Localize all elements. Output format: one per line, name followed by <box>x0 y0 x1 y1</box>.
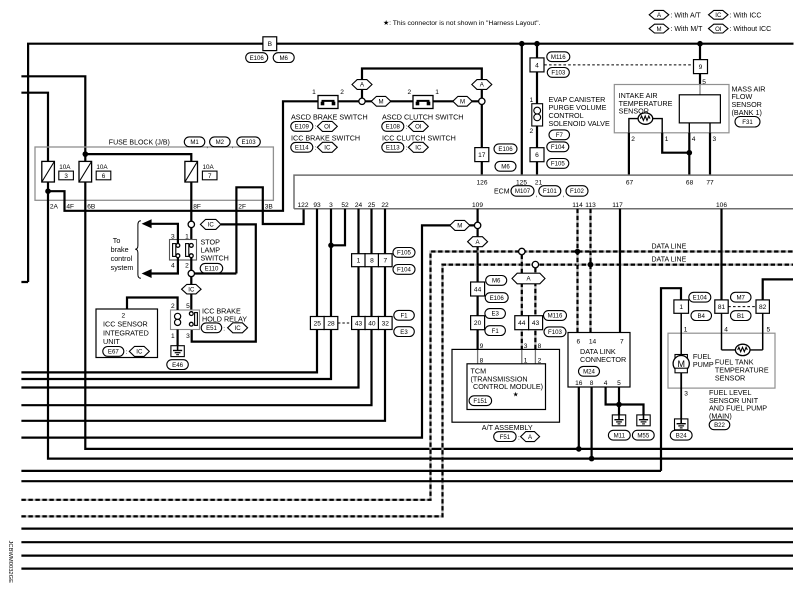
svg-text:F102: F102 <box>570 188 585 195</box>
wire: brake switch pin 2 to junction <box>338 100 359 102</box>
junction dot on bus for EVAP branch <box>534 41 540 47</box>
svg-text:F105: F105 <box>551 161 566 168</box>
wire: ECM pin 52 jumper to pin 3 <box>331 209 345 246</box>
svg-text:B1: B1 <box>737 313 745 320</box>
wire: fuse 6 output down (pin 6B) long run to bottom bus <box>85 182 793 449</box>
svg-text:3: 3 <box>713 136 717 143</box>
svg-text:6: 6 <box>102 173 106 180</box>
ICC brake hold relay E51 box <box>171 310 200 330</box>
svg-text:M2: M2 <box>216 139 225 146</box>
svg-text:43: 43 <box>355 320 363 327</box>
svg-text:E3: E3 <box>491 311 499 318</box>
svg-text:ICC SENSOR: ICC SENSOR <box>103 320 148 329</box>
svg-text:E106: E106 <box>498 146 513 153</box>
svg-text:B24: B24 <box>676 432 687 439</box>
svg-text:81: 81 <box>718 304 726 311</box>
EVAP purge volume control solenoid valve coil <box>532 104 543 126</box>
wire: ECM pin 114 dashed to data line 1 and DLC pin 6 <box>576 209 578 333</box>
svg-text:43: 43 <box>532 320 540 327</box>
wire: bottom line y527 <box>21 527 793 529</box>
svg-text:22: 22 <box>381 202 389 209</box>
node: 8F junction circle above stop lamp switch <box>188 221 194 227</box>
wire: data line 2 tap down through connector 43 to TCM pin 2 (dashed) <box>534 268 536 350</box>
connector box 20 with E3 F1 <box>471 316 485 330</box>
svg-text:2F: 2F <box>238 203 246 210</box>
svg-text:CONTROL MODULE): CONTROL MODULE) <box>473 382 543 391</box>
connector box 6 with F104 F105 <box>530 148 544 162</box>
wire: ECM pin 22 down through connectors 7/32 to bus <box>21 209 385 421</box>
svg-text:5: 5 <box>617 380 621 387</box>
wire: ECM pin 24 down through connectors 1/43 to bus <box>21 209 358 388</box>
wire: bottom line y470 to fuel pump riser <box>21 470 661 472</box>
ASCD clutch switch box <box>413 96 433 109</box>
svg-text:IC: IC <box>235 325 242 332</box>
wire: junction to M hexagon to clutch switch <box>365 100 413 102</box>
wire: ECM pin 113 dashed to data line 2 and DLC pin 14 <box>589 209 591 333</box>
svg-text:8: 8 <box>370 258 374 265</box>
svg-text:2: 2 <box>530 128 534 135</box>
wire: solenoid pin 2 to connector 6 <box>536 126 538 148</box>
svg-text:E103: E103 <box>241 139 256 146</box>
svg-text:,: , <box>232 143 234 150</box>
svg-text:B22: B22 <box>714 422 725 429</box>
connector box 17 with E106 M6 <box>475 148 489 162</box>
svg-text:32: 32 <box>382 320 390 327</box>
svg-text:OI: OI <box>324 124 331 131</box>
intake air temperature sensor element <box>638 113 653 124</box>
svg-text:4: 4 <box>171 263 175 270</box>
svg-text:F1: F1 <box>400 313 408 320</box>
wire: bus down to connector 4 <box>536 44 538 58</box>
svg-text:,: , <box>206 143 208 150</box>
svg-text:M24: M24 <box>583 369 595 376</box>
wire: fuse 3 output down (pin 2A) long run to bottom bus <box>48 182 793 459</box>
ground B24 <box>675 419 688 430</box>
svg-text:117: 117 <box>612 202 623 209</box>
wire: stop lamp switch pin 2 down to lower node <box>190 258 192 271</box>
svg-text:2: 2 <box>171 303 175 310</box>
connector row 25-28 dashed 43-40-32 with F1 E3 <box>310 317 324 330</box>
wire: into TCM inner pin 8 <box>477 349 479 363</box>
wire: bus to ECM pin 125 <box>521 44 523 175</box>
svg-text:M116: M116 <box>551 54 566 61</box>
svg-text:126: 126 <box>476 179 487 186</box>
svg-text:OI: OI <box>715 26 722 33</box>
connector ovals M116 F103 <box>544 311 567 321</box>
svg-text:6B: 6B <box>87 203 96 210</box>
wire: bus down to connector 9 <box>699 44 701 60</box>
stop lamp switch E110 box <box>170 240 197 261</box>
svg-text::: : <box>315 124 317 131</box>
svg-text:82: 82 <box>759 304 767 311</box>
wire: fuse 7 output down (pin 8F) to stop lamp switch node <box>190 182 192 221</box>
svg-text:E3: E3 <box>400 329 408 336</box>
svg-text:F7: F7 <box>556 132 564 139</box>
svg-text:113: 113 <box>585 202 596 209</box>
svg-text:122: 122 <box>297 202 308 209</box>
qualifier hexagon M (left) <box>371 96 391 106</box>
svg-text:1: 1 <box>357 258 361 265</box>
wire: left feed stub to fuse 3 (row y93) <box>21 93 48 162</box>
junction dot on bus for ECM pin 125 branch <box>519 41 525 47</box>
data link connector M24 box <box>568 333 630 388</box>
svg-text:F103: F103 <box>551 70 566 77</box>
DATA LINE 2 dashed wire <box>21 265 793 517</box>
svg-text:brake: brake <box>111 245 129 254</box>
qualifier hexagon M (right) <box>453 96 472 106</box>
svg-text:93: 93 <box>313 202 321 209</box>
svg-text:★: This connector is not shown: ★: This connector is not shown in "Harne… <box>383 19 540 27</box>
svg-text:(BANK 1): (BANK 1) <box>732 108 762 117</box>
svg-text:44: 44 <box>474 286 482 293</box>
svg-text:M: M <box>656 26 661 33</box>
wire: DLC pins 4+5 to grounds M11 M55 <box>606 387 644 415</box>
svg-text:ICC BRAKE SWITCH: ICC BRAKE SWITCH <box>291 133 360 142</box>
fuse block (J/B) outline <box>35 147 273 200</box>
wire: connector 1 into fuel pump <box>680 313 682 354</box>
wire: pin5 inside sensor to MAF box <box>699 85 701 95</box>
wire: clutch switch pin 1 to right junction <box>433 100 479 102</box>
svg-text::: : <box>518 434 520 441</box>
qualifier hexagon A (right) <box>472 80 492 90</box>
junction dot below fuse 3 <box>45 188 51 194</box>
svg-text:FUSE BLOCK (J/B): FUSE BLOCK (J/B) <box>109 139 170 146</box>
wire: ECM pin 93 down through connector 25 to bus <box>21 209 317 373</box>
qualifier hexagon A on A/T branch <box>468 237 488 247</box>
svg-text:3: 3 <box>64 173 68 180</box>
connector oval F7 <box>549 130 570 140</box>
wire: connector 81 into fuel unit pin 4 <box>721 313 723 350</box>
svg-text:SWITCH: SWITCH <box>201 254 229 263</box>
wire: DLC pin 16 to ground bus (6B line) <box>578 387 580 449</box>
svg-text:F105: F105 <box>397 250 412 257</box>
wire: connector 82 into fuel unit pin 5 <box>762 313 764 350</box>
svg-text:E46: E46 <box>172 362 183 369</box>
connector box 9 <box>694 60 708 74</box>
svg-text:9: 9 <box>699 64 703 71</box>
legend hexagon IC = With ICC <box>709 10 729 19</box>
wire: temp sensor left lead to pin 2 <box>629 119 638 133</box>
svg-text:2: 2 <box>340 89 344 96</box>
svg-text::: : <box>126 349 128 356</box>
svg-text:: With M/T: : With M/T <box>671 26 704 33</box>
svg-text:,: , <box>562 192 564 199</box>
A/T assembly outer box <box>452 349 560 422</box>
svg-text:IC: IC <box>715 12 722 19</box>
svg-text:M: M <box>378 99 383 106</box>
svg-text:114: 114 <box>572 202 583 209</box>
svg-text:★: ★ <box>513 391 519 398</box>
wire: bottom line y481 full width <box>21 480 793 482</box>
svg-text:M11: M11 <box>614 432 626 439</box>
svg-text:E51: E51 <box>206 325 217 332</box>
wire: connector 4 to EVAP solenoid pin 1 <box>536 72 538 104</box>
junction dot pins 3+52 <box>328 243 334 249</box>
svg-text:8F: 8F <box>193 203 201 210</box>
svg-text:40: 40 <box>368 320 376 327</box>
svg-text:3: 3 <box>684 390 688 397</box>
svg-text:M6: M6 <box>501 164 510 171</box>
wire: connector 82 up and off page right <box>763 279 793 300</box>
svg-text:77: 77 <box>706 179 714 186</box>
svg-text:IC: IC <box>324 145 331 152</box>
wires into TCM inner pins 1 2 <box>521 349 523 363</box>
svg-text:2: 2 <box>408 89 412 96</box>
svg-text:1: 1 <box>530 97 534 104</box>
junction dot on bus for MAF branch <box>697 41 703 47</box>
wire: fuse block jumper 2F-3B <box>236 187 303 273</box>
svg-text:M: M <box>457 223 462 230</box>
wire: relay coil pin 2 to ICC sensor integrated unit pin 2 <box>127 298 178 311</box>
wire: pin 3 to ECM pin 77 <box>709 133 711 175</box>
svg-text:: With A/T: : With A/T <box>671 12 702 19</box>
svg-text:44: 44 <box>518 320 526 327</box>
svg-text:M55: M55 <box>637 432 649 439</box>
wire: left feed stub to fuse 6 (row y76) <box>21 76 85 161</box>
wire: MAF pin 3 lead <box>709 123 711 133</box>
svg-text:4: 4 <box>535 62 539 69</box>
svg-text:F103: F103 <box>548 329 563 336</box>
fuel pump motor M <box>675 355 687 360</box>
svg-text:F104: F104 <box>397 267 412 274</box>
svg-text:68: 68 <box>686 179 694 186</box>
legend hexagon OI = Without ICC <box>709 24 729 33</box>
svg-text:4: 4 <box>604 380 608 387</box>
wire: stop lamp switch pin 1 from circle <box>190 228 192 243</box>
svg-text:CONNECTOR: CONNECTOR <box>580 355 626 364</box>
connector box 43 (TCM) <box>529 316 543 330</box>
svg-text:10A: 10A <box>203 164 215 171</box>
stop lamp switch right contact (pins 1-2) <box>186 244 189 257</box>
connector box 1 with E104 B4 <box>674 300 689 313</box>
svg-text:,: , <box>536 192 538 199</box>
wire: branch to fuse 7 top <box>85 154 191 161</box>
ground M11 <box>612 415 625 426</box>
wire: temp sensor right lead to pin 1 <box>653 119 663 133</box>
svg-text:E67: E67 <box>108 349 119 356</box>
svg-text:4: 4 <box>692 136 696 143</box>
svg-text:2: 2 <box>121 312 125 319</box>
svg-text:106: 106 <box>716 202 727 209</box>
arrow to brake control system (top) <box>142 219 152 228</box>
svg-text:ASCD CLUTCH SWITCH: ASCD CLUTCH SWITCH <box>382 113 463 122</box>
connector oval F151 <box>469 396 492 406</box>
svg-text:3B: 3B <box>265 203 274 210</box>
wire: fuel pump pin 3 to ground B24 <box>680 373 682 419</box>
svg-text:DATA LINE: DATA LINE <box>652 243 687 250</box>
svg-text:4: 4 <box>724 326 728 333</box>
connector box 44 with M6 E106 <box>471 282 485 296</box>
svg-text::: : <box>315 145 317 152</box>
intake air temperature / mass air flow sensor outer box <box>614 85 729 133</box>
svg-text:E106: E106 <box>250 55 265 62</box>
qualifier hexagon IC on stop-lamp bypass <box>200 219 221 229</box>
svg-text:M107: M107 <box>515 188 531 195</box>
svg-text:E114: E114 <box>295 145 309 152</box>
svg-text:2A: 2A <box>50 203 59 210</box>
svg-text:7: 7 <box>208 173 212 180</box>
svg-text:3: 3 <box>186 333 190 340</box>
svg-text:14: 14 <box>589 338 597 345</box>
wire: right junction down to connector 17 and ECM pin 126 <box>481 105 483 176</box>
svg-text:1: 1 <box>679 304 683 311</box>
wire: relay coil pin 1 to ground E46 <box>177 330 179 346</box>
qualifier hexagon A (left) <box>352 80 372 90</box>
DATA LINE 1 dashed wire <box>21 252 793 500</box>
svg-text:IC: IC <box>208 222 215 229</box>
legend hexagon M = With M/T <box>649 24 669 33</box>
svg-text:17: 17 <box>478 152 486 159</box>
wire: MAF pin 4 lead <box>688 123 690 133</box>
svg-text:28: 28 <box>327 320 335 327</box>
junction dot pins 4+5 <box>616 402 622 408</box>
connector box B on bus with E106 M6 <box>263 37 277 51</box>
svg-text:10A: 10A <box>96 164 108 171</box>
svg-text:67: 67 <box>626 179 634 186</box>
ASCD brake switch box <box>318 96 338 109</box>
connector oval E110 <box>200 263 223 273</box>
svg-text:ECM: ECM <box>494 188 510 195</box>
connector oval M24 <box>579 366 600 376</box>
relay contact <box>189 312 193 316</box>
fuse F-6 10A <box>79 161 92 182</box>
svg-text:4F: 4F <box>66 203 74 210</box>
svg-text:INTEGRATED: INTEGRATED <box>103 328 149 337</box>
svg-text:E109: E109 <box>295 124 310 131</box>
svg-text:B4: B4 <box>697 313 705 320</box>
svg-text:IC: IC <box>415 145 422 152</box>
wire: bottom line y555 <box>21 554 793 556</box>
svg-text:5: 5 <box>767 326 771 333</box>
node: junction circle after clutch switch <box>479 98 485 104</box>
connector box 82 <box>756 300 769 313</box>
wire: main power bus from left corner down to y282 stub <box>21 44 793 282</box>
connector oval E51 with IC qualifier <box>201 323 222 333</box>
svg-text:1: 1 <box>684 326 688 333</box>
svg-text:M7: M7 <box>736 294 745 301</box>
svg-text:: Without ICC: : Without ICC <box>730 26 772 33</box>
wire: connector 6 to ECM pin 21 <box>536 162 538 175</box>
svg-text:1: 1 <box>435 89 439 96</box>
svg-text:1: 1 <box>665 136 669 143</box>
svg-text:M1: M1 <box>190 139 199 146</box>
svg-text:125: 125 <box>516 179 527 186</box>
svg-text:25: 25 <box>368 202 376 209</box>
wire: ECM pin 3 down through connector 28 to bus <box>21 209 331 379</box>
svg-text:M6: M6 <box>492 278 501 285</box>
svg-text:To: To <box>113 236 121 245</box>
wire: connector 9 to mass air flow sensor pin 5 <box>699 74 701 85</box>
wire: A/T bypass over switches <box>362 69 482 99</box>
svg-text:F151: F151 <box>473 398 488 405</box>
svg-text:E108: E108 <box>386 124 401 131</box>
svg-text:16: 16 <box>575 380 583 387</box>
svg-text:A/T ASSEMBLY: A/T ASSEMBLY <box>482 423 533 432</box>
svg-text:109: 109 <box>472 202 483 209</box>
svg-text:F31: F31 <box>742 119 753 126</box>
node: junction circle below stop lamp switch <box>188 270 194 276</box>
ECM box <box>294 175 793 209</box>
qualifier hexagon M on M/T branch <box>450 220 470 230</box>
svg-text:M: M <box>677 359 685 369</box>
svg-text::: : <box>406 145 408 152</box>
svg-text:7: 7 <box>383 258 387 265</box>
svg-text:IC: IC <box>136 349 143 356</box>
svg-text:system: system <box>111 263 134 272</box>
wire: ECM pin 106 to connector 81 <box>720 209 722 300</box>
fuel level sensor unit box <box>668 333 775 388</box>
connector oval B22 <box>709 420 730 430</box>
legend hexagon A = With A/T <box>649 10 669 19</box>
node: circle junction data line 2 to TCM <box>532 261 538 267</box>
svg-text:24: 24 <box>355 202 363 209</box>
svg-text:E113: E113 <box>386 145 400 152</box>
wire: data line 1 tap down through connector 44 to TCM pin 1 (dashed) <box>521 255 523 350</box>
svg-text:52: 52 <box>341 202 349 209</box>
junction dot pins 1+4 <box>687 150 693 156</box>
dashed link connector 4 to connector 9 <box>544 64 693 66</box>
svg-text:2: 2 <box>185 263 189 270</box>
connector oval F51 with A qualifier <box>494 432 516 442</box>
svg-text:PUMP: PUMP <box>693 360 714 369</box>
svg-text:B: B <box>268 41 273 48</box>
svg-text:ASCD BRAKE SWITCH: ASCD BRAKE SWITCH <box>291 113 368 122</box>
wire: ECM pin 25 down through connectors 8/40 to bus <box>21 209 371 406</box>
svg-text:M: M <box>460 99 465 106</box>
connector box 81 with M7 B1 <box>715 300 728 313</box>
svg-text:ICC CLUTCH SWITCH: ICC CLUTCH SWITCH <box>382 133 456 142</box>
svg-text::: : <box>406 124 408 131</box>
connector box 4 with M116 F103 <box>530 58 544 72</box>
svg-text:1: 1 <box>312 89 316 96</box>
junction dot pin 113 on data line 2 <box>588 262 594 268</box>
wire: pin 3 to brake control system arrow <box>151 224 178 243</box>
junction dot pin 114 on data line 1 <box>575 249 581 255</box>
wire: ECM pin 109 down to junction <box>477 209 479 223</box>
svg-text:25: 25 <box>314 320 322 327</box>
svg-text:F51: F51 <box>500 434 511 441</box>
svg-text:M6: M6 <box>279 55 288 62</box>
svg-text:control: control <box>111 254 133 263</box>
svg-text:UNIT: UNIT <box>103 337 120 346</box>
svg-text:SOLENOID VALVE: SOLENOID VALVE <box>549 119 610 128</box>
svg-text:F104: F104 <box>551 144 566 151</box>
wire: lower node to 2F feed <box>195 272 237 274</box>
TCM inner box <box>467 364 546 410</box>
dashed link 81 to 82 <box>728 306 756 308</box>
svg-text:8: 8 <box>590 380 594 387</box>
mass air flow sensor inner box <box>679 95 720 123</box>
wire: bottom line y541 <box>21 541 793 543</box>
node: junction circle after brake switch <box>359 98 365 104</box>
relay coil <box>175 313 181 319</box>
ICC sensor integrated unit box <box>96 309 158 358</box>
svg-text:IC: IC <box>188 286 195 293</box>
connector row 1-8-7 with F105 F104 <box>352 254 366 267</box>
svg-text:(MAIN): (MAIN) <box>709 412 732 421</box>
wire: ECM pin 117 to DLC pin 7 <box>619 209 621 333</box>
node: circle junction data line 1 to TCM <box>519 248 525 254</box>
svg-text:3: 3 <box>171 233 175 240</box>
svg-text:2: 2 <box>631 136 635 143</box>
wire: pin 1 joins pin 4 node <box>662 133 689 153</box>
fuse F-7 10A <box>185 161 198 182</box>
svg-text:6: 6 <box>576 338 580 345</box>
svg-text:1: 1 <box>171 333 175 340</box>
stop lamp switch left contact (pins 3-4) <box>173 244 176 257</box>
svg-text:E104: E104 <box>693 294 708 301</box>
brace for To brake control system <box>135 221 141 279</box>
